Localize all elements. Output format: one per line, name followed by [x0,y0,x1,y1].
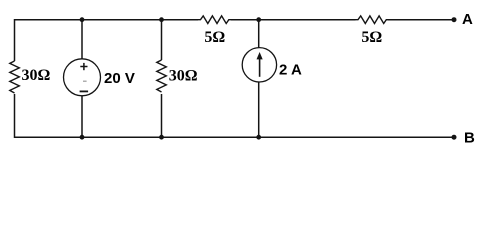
arrow head [257,52,263,59]
svg-text:B: B [464,130,475,147]
resistor 30Ω (middle branch, vertical) [157,20,198,138]
svg-text:30Ω: 30Ω [169,67,198,84]
node junction dot bottom at current source [256,135,261,140]
node junction dot top at middle 30Ω [159,17,164,22]
wire: top lead [161,20,163,60]
wire: bottom lead of current source [258,82,260,137]
current source I1 2 A (circle with up arrow) [242,20,302,138]
svg-text:5Ω: 5Ω [361,29,382,46]
svg-text:2 A: 2 A [279,62,302,79]
voltage source U1 20 V (circle with + / -) [64,20,135,138]
node junction dot bottom at middle 30Ω [159,135,164,140]
wire: bottom lead of voltage source [81,96,83,138]
arrow shaft [259,58,261,77]
wire: top rail left segment (corner to R-top1) [15,20,199,61]
terminal B [452,130,476,147]
svg-text:A: A [462,11,473,28]
wire: top lead of voltage source [81,20,83,59]
wire: top rail from R-top2 to terminal A [388,19,455,21]
node junction dot bottom at voltage source [80,135,85,140]
faint middle dash [83,80,87,82]
node junction dot top at current source [256,17,261,22]
plus sign [80,66,87,68]
svg-text:5Ω: 5Ω [204,29,225,46]
resistor 5Ω (top rail, left one) [198,16,231,46]
wire: bottom lead [161,94,163,137]
resistor 30Ω (left branch, vertical) [10,61,51,93]
wire: top rail between R-top1 and R-top2 [231,19,356,21]
wire: top lead of current source [258,20,260,48]
svg-text:30Ω: 30Ω [22,67,51,84]
svg-text:20 V: 20 V [104,70,135,87]
wire: bottom rail from left corner to terminal B [15,94,455,137]
terminal A [452,11,474,28]
minus sign [80,90,89,92]
node junction dot top at voltage source [80,17,85,22]
resistor 5Ω (top rail, right one) [356,16,388,46]
